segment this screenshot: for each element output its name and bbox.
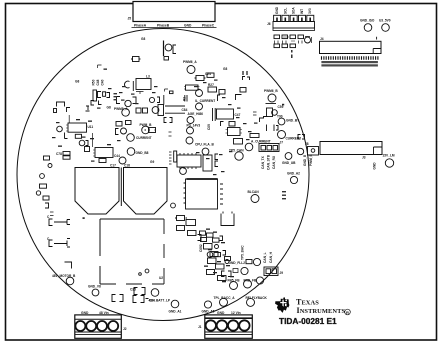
diode D2 with pad circle bbox=[117, 97, 137, 107]
svg-text:L3: L3 bbox=[146, 75, 150, 79]
svg-text:48V_BATT_LP: 48V_BATT_LP bbox=[149, 299, 171, 303]
svg-text:J5: J5 bbox=[128, 17, 132, 21]
resistor R90 bbox=[175, 216, 187, 221]
resistor R99 bbox=[218, 276, 227, 281]
capacitor C104 bbox=[220, 236, 223, 241]
svg-text:TIDA-00281 E1: TIDA-00281 E1 bbox=[279, 316, 337, 326]
diode D5 bbox=[305, 37, 312, 44]
svg-text:GND_A2: GND_A2 bbox=[287, 172, 300, 176]
svg-text:J2: J2 bbox=[123, 327, 127, 331]
svg-text:GND_UB: GND_UB bbox=[282, 161, 296, 165]
svg-text:CPU_FLA_B: CPU_FLA_B bbox=[195, 143, 214, 147]
resistor cluster R21-R24 bbox=[86, 79, 118, 111]
svg-text:PWM6_A: PWM6_A bbox=[183, 60, 197, 64]
capacitor C41 pair bbox=[116, 122, 123, 135]
capacitor column right of U4 bbox=[220, 184, 223, 204]
capacitor C42 and pads bbox=[126, 121, 132, 125]
transistor Q3 pad and wire bbox=[57, 115, 69, 132]
connector J8 with mounting pads bbox=[297, 142, 318, 155]
svg-text:3V3: 3V3 bbox=[308, 8, 312, 14]
svg-text:GND: GND bbox=[217, 311, 225, 315]
capacitor C65 bbox=[48, 164, 52, 168]
svg-text:R2: R2 bbox=[183, 97, 187, 101]
capacitor C95 (bracket pair) bbox=[222, 271, 232, 277]
svg-text:48V_MOTOR_B: 48V_MOTOR_B bbox=[52, 274, 76, 278]
resistor R91 bbox=[177, 226, 185, 231]
comparator U11 bbox=[213, 88, 247, 122]
svg-text:CAN_TX: CAN_TX bbox=[261, 155, 265, 169]
capacitor C80 bbox=[243, 71, 247, 75]
test point 48V_SW bbox=[152, 107, 159, 114]
resistor R72 bbox=[283, 35, 296, 41]
capacitor C17 (bulk cap outline) bbox=[75, 164, 119, 215]
capacitor C93 (bracket) bbox=[198, 235, 202, 241]
svg-text:CAN_STB: CAN_STB bbox=[267, 154, 271, 170]
test point FB5_FB bbox=[228, 279, 241, 290]
svg-text:IL_CURRENT: IL_CURRENT bbox=[195, 99, 215, 103]
connector J6 (5-pin header, top right) bbox=[267, 15, 315, 30]
svg-text:C40: C40 bbox=[101, 79, 105, 85]
resistor R105 bbox=[214, 253, 221, 257]
capacitor C100 bbox=[200, 231, 206, 235]
svg-text:GND_BT: GND_BT bbox=[286, 119, 299, 123]
test point GND_A2 bbox=[287, 172, 300, 184]
svg-text:GND_ISO: GND_ISO bbox=[360, 19, 375, 23]
J4 pin row bbox=[321, 56, 378, 66]
board outline circle bbox=[17, 29, 309, 321]
test point PWM_FLLT bbox=[229, 258, 261, 265]
connector J5 (3-phase header, top) bbox=[128, 2, 216, 22]
test point TP6 bbox=[235, 152, 243, 160]
svg-text:C35: C35 bbox=[130, 288, 136, 292]
CAN transceiver U13 bbox=[169, 151, 201, 169]
test point U3_5V0 bbox=[379, 19, 391, 32]
capacitor C60 bbox=[40, 174, 45, 179]
inductor L7 (L shape) bbox=[65, 262, 72, 269]
svg-text:J6: J6 bbox=[267, 22, 271, 26]
svg-text:C092: C092 bbox=[199, 244, 203, 252]
ref-des marks (left gate-driver cluster) bbox=[52, 119, 121, 162]
svg-text:CURRENT: CURRENT bbox=[286, 137, 302, 141]
test point chain AGD_HI bbox=[187, 112, 203, 123]
test point PWM6_B bbox=[264, 89, 284, 105]
regulator U14 bbox=[203, 155, 212, 171]
svg-text:PWM6_B: PWM6_B bbox=[264, 89, 278, 93]
resistor R95 bbox=[210, 252, 218, 257]
svg-text:G8: G8 bbox=[223, 67, 227, 71]
svg-text:C59: C59 bbox=[278, 105, 284, 109]
regulator U10 bbox=[184, 85, 200, 90]
svg-text:C18: C18 bbox=[124, 164, 130, 168]
capacitor C71 (bracket pair) bbox=[112, 295, 155, 303]
svg-text:R27: R27 bbox=[208, 83, 214, 87]
wire between C17 and C18 bbox=[120, 168, 122, 207]
test point GND_BT bbox=[278, 118, 299, 125]
resistor R103 bbox=[213, 238, 220, 242]
resistor R96 bbox=[208, 258, 217, 264]
svg-text:C09: C09 bbox=[207, 124, 211, 130]
ref-des marks (flyback cluster) bbox=[204, 229, 234, 283]
test point GND_A3 bbox=[202, 301, 215, 314]
test point TP5_CAN bbox=[229, 143, 253, 152]
capacitor C70 (bracket pair) bbox=[130, 288, 145, 295]
svg-text:J9: J9 bbox=[280, 271, 284, 275]
svg-text:SCL: SCL bbox=[283, 8, 287, 14]
svg-text:G8: G8 bbox=[107, 106, 111, 110]
test point TP5_BACC_A bbox=[214, 296, 236, 306]
svg-text:C: C bbox=[47, 215, 50, 219]
svg-text:G9: G9 bbox=[150, 160, 154, 164]
small marks upper level bbox=[98, 65, 102, 68]
capacitor C78 bbox=[56, 152, 70, 157]
svg-text:INT: INT bbox=[300, 9, 304, 14]
capacitor C12 (bracket) bbox=[57, 102, 65, 107]
test point chain 3 bbox=[186, 137, 193, 144]
resistor R97 bbox=[216, 264, 225, 269]
resistor R71 bbox=[282, 35, 288, 44]
test point RELFLYBACK bbox=[246, 296, 268, 306]
capacitor C79 bbox=[63, 156, 70, 159]
test point OKLA bbox=[244, 277, 264, 288]
test point TP10 bbox=[119, 157, 126, 164]
svg-text:PWM8_A: PWM8_A bbox=[114, 107, 128, 111]
test point PWM6_A bbox=[183, 60, 197, 74]
controller U4 (square IC) bbox=[184, 179, 218, 209]
test point PWM2_B bbox=[114, 107, 129, 116]
opamp U12 bbox=[226, 128, 243, 136]
test point 15V_LM bbox=[383, 154, 395, 168]
capacitor C92 bbox=[188, 231, 197, 236]
svg-text:GND: GND bbox=[275, 6, 279, 14]
svg-text:CAN_L: CAN_L bbox=[263, 252, 267, 263]
svg-text:PRB_FB: PRB_FB bbox=[244, 279, 257, 283]
ref-des marks (upper-left cluster) bbox=[97, 86, 158, 109]
svg-text:J4: J4 bbox=[320, 37, 324, 41]
test point CURRENT (right) bbox=[250, 131, 305, 144]
svg-text:GND: GND bbox=[373, 162, 377, 170]
resistor R25 bbox=[207, 73, 214, 77]
connector J7 (CAN header) bbox=[259, 141, 283, 152]
capacitor C91 bbox=[186, 220, 196, 226]
svg-text:CAN_RX: CAN_RX bbox=[272, 155, 276, 169]
capacitor C13 bbox=[253, 112, 257, 115]
pad P2 bbox=[225, 260, 229, 264]
capacitor C106 bbox=[223, 251, 226, 256]
svg-text:12 Vin: 12 Vin bbox=[231, 311, 241, 315]
svg-text:C78: C78 bbox=[56, 152, 62, 156]
pad P3 bbox=[207, 252, 213, 258]
test point GND_B8 bbox=[127, 148, 148, 156]
svg-text:GND_V8: GND_V8 bbox=[88, 285, 101, 289]
resistor R61 bbox=[40, 184, 47, 188]
shield can U5 (open-top cup) bbox=[221, 212, 234, 226]
test point CURRENT (left) bbox=[127, 134, 152, 142]
resistor R27 bbox=[208, 83, 217, 92]
resistor R31 bbox=[65, 133, 82, 139]
svg-text:R50: R50 bbox=[92, 79, 96, 85]
diode D6 bbox=[243, 77, 250, 81]
svg-text:C48: C48 bbox=[96, 79, 100, 85]
svg-text:U3_5V0: U3_5V0 bbox=[379, 19, 391, 23]
svg-text:GND_A5: GND_A5 bbox=[202, 310, 215, 314]
ref-des marks (center cluster) bbox=[194, 80, 258, 176]
capacitor C101 bbox=[201, 238, 207, 242]
svg-text:48 Vin: 48 Vin bbox=[99, 311, 109, 315]
pad near C18 bbox=[171, 203, 176, 208]
connector J4 (card edge, right upper) bbox=[320, 37, 382, 54]
pad P1 bbox=[215, 245, 219, 249]
resistor R70 bbox=[274, 35, 280, 44]
svg-text:CURRENT: CURRENT bbox=[136, 136, 152, 140]
resistor R60 (top center) bbox=[131, 57, 141, 62]
capacitor C33 (bracket) bbox=[85, 147, 90, 152]
svg-text:GND_FLL2: GND_FLL2 bbox=[229, 261, 246, 265]
svg-text:G8: G8 bbox=[75, 80, 79, 84]
svg-text:GND_B: GND_B bbox=[303, 154, 307, 166]
resistor R102 bbox=[207, 233, 214, 237]
svg-text:PhaseB: PhaseB bbox=[157, 24, 170, 28]
resistor R107 bbox=[225, 257, 231, 261]
resistor R29 bbox=[221, 122, 224, 127]
registered mark bbox=[345, 309, 351, 315]
snubber C50 (bracket-wire-bracket) bbox=[47, 215, 70, 226]
test point BLCAN bbox=[248, 190, 260, 203]
capacitor C18 (bulk cap outline) bbox=[124, 164, 168, 215]
inductor L3 bbox=[125, 75, 152, 95]
svg-text:J1: J1 bbox=[198, 325, 202, 329]
test point IL_A bbox=[196, 90, 203, 97]
svg-text:CAN_H: CAN_H bbox=[269, 251, 273, 263]
resistor R73 bbox=[298, 35, 304, 44]
svg-text:GND: GND bbox=[184, 24, 192, 28]
svg-text:C44: C44 bbox=[114, 154, 120, 158]
svg-text:U2: U2 bbox=[159, 276, 163, 280]
svg-text:AGE_HI86: AGE_HI86 bbox=[188, 112, 204, 116]
svg-text:U11: U11 bbox=[88, 125, 94, 129]
svg-text:INSTRUMENTS: INSTRUMENTS bbox=[297, 306, 346, 315]
test point GND_ISO bbox=[360, 19, 375, 32]
svg-text:RELFLYBACK: RELFLYBACK bbox=[246, 296, 268, 300]
test point 48V_BATT_LP bbox=[149, 289, 171, 303]
connector J3 (card edge, right lower) bbox=[320, 142, 382, 160]
svg-text:SDA: SDA bbox=[292, 7, 296, 14]
svg-text:GND_A1: GND_A1 bbox=[169, 310, 182, 314]
svg-text:FB5_FB: FB5_FB bbox=[228, 279, 241, 283]
capacitor C39 bbox=[260, 104, 284, 132]
diode D3 with pad bbox=[79, 140, 88, 146]
svg-text:BLCAN: BLCAN bbox=[248, 190, 260, 194]
capacitor C30 (polarized, top center) bbox=[164, 41, 177, 61]
svg-text:A_CURRENT: A_CURRENT bbox=[251, 140, 271, 144]
svg-text:TPL_BACC_A: TPL_BACC_A bbox=[214, 296, 236, 300]
test point GND_V8 bbox=[88, 285, 101, 296]
resistor R94 bbox=[204, 244, 213, 250]
gate driver U8 bbox=[66, 123, 93, 132]
test point GND_UB bbox=[282, 153, 296, 165]
svg-text:R: R bbox=[346, 310, 349, 315]
resistor R44 bbox=[234, 139, 243, 145]
svg-text:15V_LM: 15V_LM bbox=[383, 154, 395, 158]
gate driver U9 bbox=[93, 133, 121, 163]
test point TP_FLL bbox=[233, 267, 248, 274]
terminal block J2 (48V input) bbox=[75, 315, 127, 338]
svg-text:PD_14V3: PD_14V3 bbox=[187, 123, 201, 127]
shunt R28 bbox=[195, 99, 215, 103]
svg-text:GND: GND bbox=[81, 311, 89, 315]
capacitor C64 bbox=[44, 156, 50, 160]
capacitor C63 (bracket) bbox=[45, 203, 49, 208]
svg-text:TP5_BAC: TP5_BAC bbox=[241, 245, 245, 260]
svg-text:PWM_B: PWM_B bbox=[140, 123, 153, 127]
marks near L3 bbox=[165, 89, 169, 92]
J6 pin labels (vertical) bbox=[275, 6, 312, 14]
capacitor C24 bbox=[195, 72, 212, 81]
terminal block J1 (12V input) bbox=[198, 315, 252, 338]
resistor R98 bbox=[207, 270, 215, 275]
resistor R74 bbox=[274, 44, 296, 58]
svg-text:PWM_B: PWM_B bbox=[309, 153, 313, 166]
svg-text:GND_B8: GND_B8 bbox=[136, 151, 149, 155]
svg-text:C47: C47 bbox=[235, 113, 241, 117]
test point 48V_MOTOR_B bbox=[52, 274, 76, 285]
test point GND_A1 bbox=[169, 300, 182, 313]
TI logo mark bbox=[275, 297, 289, 313]
resistor R62 bbox=[36, 191, 40, 195]
svg-text:J3: J3 bbox=[362, 156, 366, 160]
svg-text:G8: G8 bbox=[141, 37, 145, 41]
resistor R82 bbox=[219, 90, 225, 95]
svg-text:J7: J7 bbox=[280, 141, 284, 145]
connector J9 bbox=[264, 267, 283, 276]
svg-text:PhaseC: PhaseC bbox=[202, 24, 215, 28]
svg-text:PhaseA: PhaseA bbox=[134, 24, 147, 28]
power module U2 (large square, dashed) bbox=[100, 219, 164, 284]
test point IL_B bbox=[196, 103, 203, 110]
svg-text:C17: C17 bbox=[110, 164, 116, 168]
snubber C51 bbox=[47, 237, 70, 247]
test point chain 2 bbox=[187, 127, 194, 134]
capacitor bank C26 bbox=[182, 95, 188, 112]
svg-text:J8: J8 bbox=[305, 142, 309, 146]
capacitor C44 bbox=[145, 128, 157, 133]
